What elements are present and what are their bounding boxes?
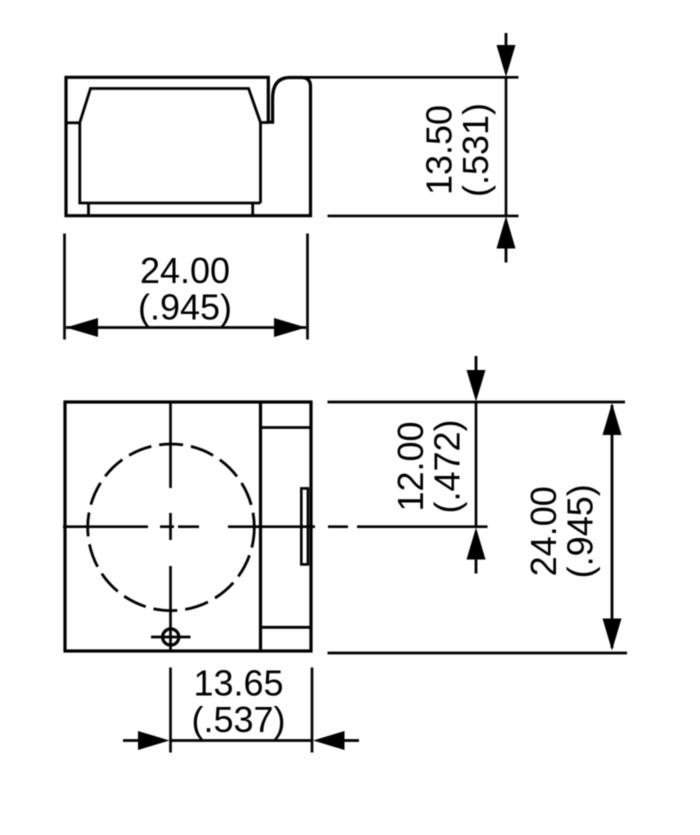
extension line right for 24.00 top: [306, 234, 309, 340]
svg-text:24.00: 24.00: [523, 486, 564, 576]
arrow up at bottom of 13.50: [505, 242, 508, 263]
dimension text 24.00 (.945) top: [138, 250, 232, 328]
dimension line 13.65: [171, 739, 313, 742]
bottom view side tab rectangle: [301, 488, 308, 564]
bottom view square outline: [65, 402, 311, 651]
extension line bottom for 13.50: [328, 215, 519, 218]
svg-text:(.531): (.531): [455, 103, 496, 197]
extension line left for 24.00 top: [63, 234, 66, 340]
extension line top right for 12.00 and 24.00: [328, 401, 626, 404]
dimension text 13.50 (.531) rotated: [419, 103, 497, 197]
dimension line 13.50 vertical: [505, 77, 508, 216]
bottom view top terminal line: [261, 426, 312, 429]
svg-text:(.472): (.472): [427, 419, 468, 513]
dashed circle (sound port): [88, 444, 255, 611]
bottom view bottom terminal line: [261, 626, 312, 629]
side view inner body top chamfer and edges: [80, 89, 268, 204]
svg-text:13.50: 13.50: [419, 105, 460, 195]
side view right foot: [251, 203, 254, 216]
arrow down at top of 13.50: [505, 33, 508, 52]
extension line top for 13.50: [304, 76, 519, 79]
svg-text:12.00: 12.00: [390, 421, 431, 511]
svg-text:(.945): (.945): [559, 484, 600, 578]
side view left foot: [87, 203, 90, 216]
target symbol (tolerance datum): [163, 629, 179, 645]
extension line bottom right for 24.00: [328, 652, 628, 655]
svg-text:24.00: 24.00: [140, 250, 230, 291]
arrow down at top of 12.00: [475, 356, 478, 375]
side view outer outline with retaining hook: [66, 77, 311, 215]
horizontal centerline: [63, 525, 488, 528]
arrow right outside left of 13.65: [123, 739, 140, 742]
dimension line 24.00 right vertical with arrows: [611, 405, 614, 648]
side view left step line: [66, 121, 80, 124]
arrow up at bottom of 12.00: [475, 556, 478, 574]
vertical centerline: [169, 402, 172, 651]
arrow left outside right of 13.65: [344, 739, 359, 742]
dimension text 12.00 (.472) rotated: [390, 419, 468, 513]
svg-text:(.537): (.537): [191, 699, 285, 740]
extension line left for 13.65: [169, 668, 172, 753]
svg-text:13.65: 13.65: [193, 662, 283, 703]
dimension text 13.65 (.537): [191, 662, 285, 740]
dimension line 24.00 with arrows: [66, 326, 306, 329]
bottom view terminal strip divider: [259, 402, 262, 651]
dimension text 24.00 (.945) right rotated: [523, 484, 601, 578]
extension line right for 13.65: [311, 668, 314, 753]
svg-text:(.945): (.945): [138, 286, 232, 327]
dimension line 12.00 vertical: [475, 402, 478, 527]
